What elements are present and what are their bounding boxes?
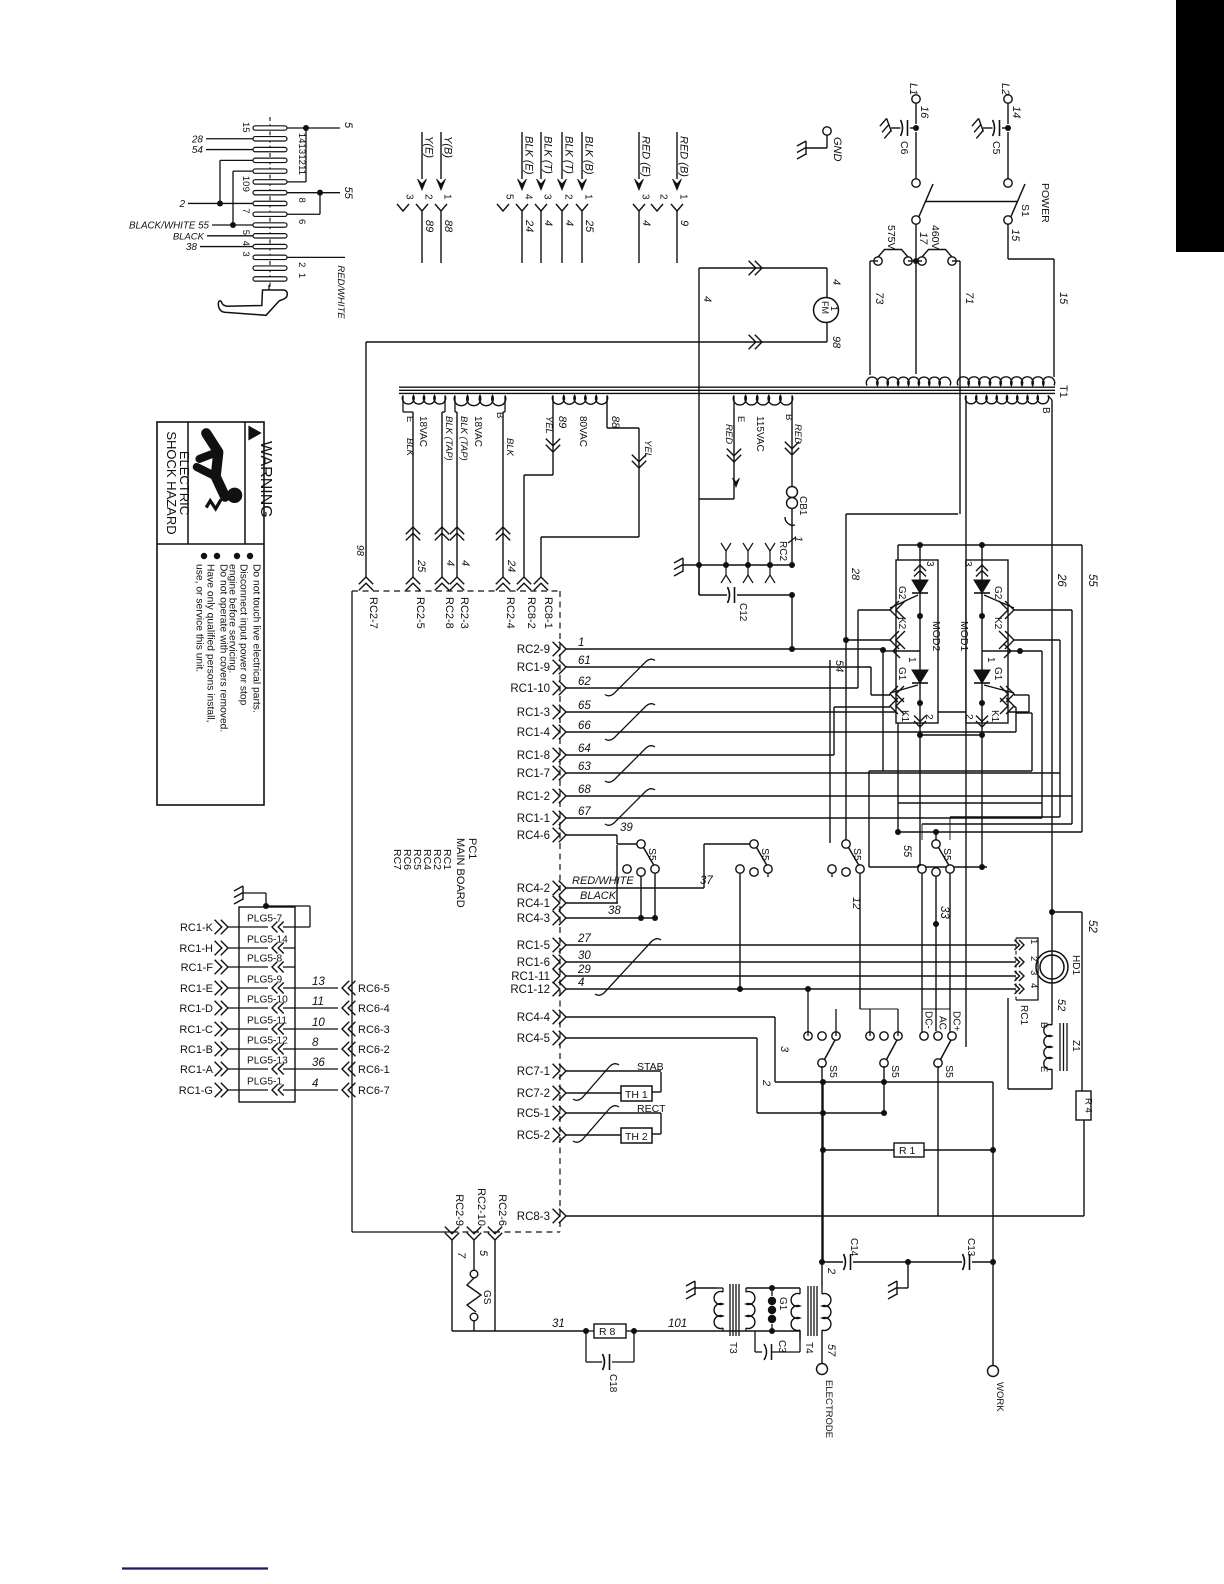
ground between C14/C13 (905, 1259, 911, 1265)
svg-text:89: 89 (556, 416, 568, 428)
twisted pair slash RC1-8/RC1-7 (605, 746, 655, 783)
svg-text:28: 28 (191, 134, 204, 145)
gun trigger symbol (268, 285, 270, 291)
svg-text:RC5-1: RC5-1 (517, 1108, 550, 1120)
svg-text:BLK: BLK (504, 438, 515, 457)
wire 5 from pin 15 jumper to pin 10 (287, 127, 340, 129)
svg-text:use, or service this unit.: use, or service this unit. (194, 564, 205, 672)
MOD1 SCR bottom (974, 670, 990, 683)
connector RC2-7 (359, 577, 373, 584)
svg-text:RED (E): RED (E) (640, 136, 652, 177)
svg-text:4: 4 (563, 220, 575, 226)
connector RC2-4 (496, 577, 510, 584)
svg-text:38: 38 (186, 242, 198, 253)
svg-text:80VAC: 80VAC (577, 416, 588, 447)
svg-text:7: 7 (455, 1252, 467, 1259)
wire 17 to T1 primary tap (915, 261, 917, 374)
svg-text:33: 33 (938, 906, 950, 919)
svg-text:K2: K2 (896, 617, 907, 630)
capacitor C12 (698, 565, 700, 595)
wire 88 YEL to RC8-1 (541, 536, 639, 538)
svg-text:K1: K1 (989, 710, 1000, 723)
svg-text:RC1-F: RC1-F (181, 962, 214, 974)
footer rule (122, 1567, 268, 1569)
svg-text:R 4: R 4 (1083, 1098, 1094, 1113)
power switch S1 (915, 132, 917, 179)
wire 54 to pin 13 (206, 149, 253, 151)
svg-text:3: 3 (640, 194, 651, 200)
svg-text:T4: T4 (803, 1342, 814, 1354)
ground at C6 (878, 118, 893, 138)
svg-text:G1: G1 (992, 667, 1003, 681)
svg-text:15: 15 (1009, 229, 1021, 242)
svg-text:RC5-2: RC5-2 (517, 1130, 550, 1142)
svg-text:B: B (1038, 1022, 1049, 1028)
selector switch S5 pole G (DC+/AC/DC-) (934, 1059, 942, 1067)
resistor R4 (1076, 1091, 1091, 1120)
svg-text:25: 25 (415, 559, 427, 573)
WORK terminal (988, 1366, 999, 1377)
svg-text:RC4-3: RC4-3 (517, 913, 550, 925)
svg-text:10: 10 (240, 176, 251, 187)
MOD top bus wire 55 (898, 544, 1082, 546)
svg-text:RC4-2: RC4-2 (517, 883, 550, 895)
RC4-5 wire 2 down (756, 1038, 758, 1113)
svg-text:64: 64 (578, 743, 591, 755)
MOD2 terminal 3 (top) (919, 545, 921, 580)
svg-text:28: 28 (849, 567, 861, 581)
svg-text:RC4-5: RC4-5 (517, 1033, 550, 1045)
RC1 pin 1 (1019, 940, 1024, 950)
svg-text:68: 68 (578, 784, 591, 796)
lower bank horizontal ties (860, 1008, 898, 1010)
ground at RC2 spare row (674, 558, 683, 576)
svg-text:RC8-3: RC8-3 (517, 1211, 550, 1223)
svg-text:1: 1 (792, 536, 804, 542)
RC1 pin 2 (1019, 957, 1024, 967)
svg-text:G2: G2 (896, 586, 907, 600)
MOD1 terminal K2 (1005, 631, 1014, 649)
svg-text:RC1-B: RC1-B (180, 1044, 213, 1056)
svg-text:RC1-7: RC1-7 (517, 768, 550, 780)
svg-text:11: 11 (312, 996, 324, 1008)
svg-text:1: 1 (296, 273, 307, 278)
PC1 board edge left wire (351, 591, 353, 1232)
RC1 pin 4 (1019, 984, 1024, 994)
svg-text:RC7-2: RC7-2 (517, 1088, 550, 1100)
svg-text:2: 2 (423, 194, 434, 200)
plug wire BLK (T) pin 2 (561, 132, 563, 179)
wire 71 (952, 260, 960, 262)
svg-text:RC1-10: RC1-10 (510, 683, 550, 695)
plug wire RED (E) pin 3 (638, 132, 640, 179)
115VAC lead B wire RED (791, 409, 793, 486)
svg-text:S5: S5 (941, 848, 953, 861)
MOD2 output drop (868, 771, 870, 867)
spark gap G1 (769, 1285, 775, 1291)
RC1-8 jog to MOD2 K1 (833, 707, 835, 755)
T1 secondary lead left (965, 410, 967, 1047)
svg-text:4: 4 (444, 560, 456, 566)
connector RC2-8 (435, 577, 449, 584)
line terminal L1 (912, 95, 920, 103)
svg-text:30: 30 (578, 950, 591, 962)
svg-text:55: 55 (342, 187, 354, 200)
RC6 dashed links (351, 988, 353, 1090)
svg-text:HD1: HD1 (1070, 955, 1081, 975)
svg-text:RC8-2: RC8-2 (525, 597, 537, 629)
connector RC8-2 (517, 577, 531, 584)
svg-text:AC: AC (937, 1016, 948, 1030)
svg-text:4: 4 (1028, 983, 1039, 988)
Z1 return wire (1051, 1069, 1053, 1089)
svg-text:R 8: R 8 (599, 1326, 616, 1338)
plug wire BLK (B) pin 1 (581, 132, 583, 179)
svg-text:460V: 460V (929, 225, 941, 250)
MOD1 internal node top (979, 613, 985, 619)
svg-text:4: 4 (578, 977, 584, 989)
selector switch S5 pole E (818, 1059, 826, 1067)
thermostat TH1 with STAB label (660, 1072, 662, 1092)
svg-text:10: 10 (312, 1017, 325, 1029)
T1 secondary lead right (to HD1/Z1) (1051, 400, 1053, 1022)
svg-text:RC1-H: RC1-H (179, 943, 213, 955)
electric shock pictogram (197, 433, 242, 509)
svg-text:3: 3 (778, 1046, 790, 1053)
svg-text:RC1-5: RC1-5 (517, 940, 550, 952)
connector RC8-1 (534, 577, 548, 584)
circuit breaker CB1 (787, 487, 798, 498)
MOD2 SCR top (912, 580, 928, 593)
svg-text:RC6-7: RC6-7 (358, 1085, 390, 1097)
bottom bus wire 31 (452, 1330, 586, 1332)
svg-text:RC2-3: RC2-3 (458, 597, 470, 629)
wire 55 right loop (1081, 545, 1083, 832)
svg-text:26: 26 (1055, 573, 1067, 587)
svg-text:B: B (494, 412, 505, 418)
svg-text:RED (B): RED (B) (678, 136, 690, 177)
T1 18VAC winding 1 (402, 396, 445, 405)
svg-text:RC2-8: RC2-8 (443, 597, 455, 629)
warning triangle icon (249, 427, 261, 440)
svg-text:63: 63 (578, 761, 591, 773)
svg-text:98: 98 (354, 545, 365, 557)
svg-text:RC2-10: RC2-10 (475, 1188, 487, 1226)
svg-text:BLACK: BLACK (173, 231, 205, 242)
svg-text:1: 1 (906, 657, 917, 663)
svg-text:RC1-3: RC1-3 (517, 707, 550, 719)
svg-text:PC1: PC1 (466, 838, 478, 859)
svg-text:37: 37 (700, 875, 713, 887)
svg-text:YEL: YEL (543, 416, 554, 434)
wire from RC2-6 (494, 1240, 496, 1331)
wire 55 vertical MOD top to S5 (897, 545, 899, 832)
MOD2 internal node bottom (917, 700, 923, 706)
svg-text:G1: G1 (777, 1297, 788, 1311)
svg-text:RC1-11: RC1-11 (511, 971, 550, 983)
PC1 board edge dashed bottom (352, 1231, 452, 1233)
svg-text:DC-: DC- (923, 1011, 934, 1029)
svg-text:65: 65 (578, 700, 591, 712)
wire BLACK to pin 5 (207, 235, 253, 237)
MOD1 terminal 2 (bottom) (976, 721, 988, 727)
RC4-6 wire 39 to S5 (616, 835, 618, 844)
RC4-2 wire 37 to S5 pole B (703, 844, 705, 888)
svg-text:RC4-6: RC4-6 (517, 830, 550, 842)
S5 pole C drops (831, 873, 833, 877)
mesh horizontal y803 (898, 802, 1042, 804)
svg-text:GND: GND (831, 137, 843, 162)
warning label box (157, 422, 264, 805)
svg-text:RED/WHITE: RED/WHITE (572, 875, 634, 887)
svg-text:RC1-8: RC1-8 (517, 750, 550, 762)
svg-text:L1: L1 (907, 83, 919, 95)
svg-text:8: 8 (312, 1037, 319, 1049)
ground at T3 (686, 1281, 695, 1299)
RC1-1 loop to MOD1 1 (1041, 651, 1043, 818)
svg-text:RED: RED (792, 424, 803, 444)
svg-text:BLK (T): BLK (T) (542, 136, 554, 174)
svg-text:18VAC: 18VAC (472, 416, 483, 447)
connector RC2-9 (bottom) (445, 1233, 459, 1240)
svg-text:73: 73 (873, 292, 885, 305)
resistor R8 (583, 1328, 589, 1334)
svg-text:2: 2 (658, 194, 669, 200)
wire 28 to pin 14 (206, 138, 253, 140)
svg-text:9: 9 (678, 220, 690, 226)
wire 101 (634, 1330, 723, 1332)
svg-text:9: 9 (240, 187, 251, 192)
capacitor C18 (585, 1331, 587, 1362)
svg-text:S5: S5 (943, 1065, 955, 1078)
plug wire Y(E) pin 2 (421, 132, 423, 179)
T1 80VAC winding (552, 396, 607, 405)
svg-text:RC1: RC1 (1018, 1005, 1029, 1025)
capacitor C6 (901, 120, 903, 136)
svg-text:YEL: YEL (642, 440, 653, 458)
svg-text:RC2-5: RC2-5 (414, 597, 426, 629)
wire 28 (T1 tap to MOD2) (846, 513, 958, 515)
svg-text:BLK: BLK (404, 438, 415, 457)
svg-text:55: 55 (901, 845, 913, 858)
svg-text:52: 52 (1086, 920, 1098, 933)
plug wire BLK (E) pin 4 (521, 132, 523, 179)
svg-text:RECT: RECT (637, 1103, 666, 1115)
svg-text:1: 1 (583, 194, 594, 200)
svg-text:K1: K1 (899, 710, 910, 723)
warning bullet 1 (247, 553, 253, 559)
twisted pair slash RC7-1/RC7-2 (573, 1064, 619, 1101)
T1 primary winding group 2 (957, 377, 1054, 386)
MOD1 terminal K1 (1006, 698, 1014, 714)
svg-text:5: 5 (504, 194, 515, 200)
PLG5 ground jumper (234, 886, 243, 904)
svg-text:C18: C18 (607, 1374, 618, 1393)
svg-text:Have only qualified persons in: Have only qualified persons install, (205, 564, 216, 723)
svg-text:BLK (TAP): BLK (TAP) (443, 416, 454, 461)
svg-text:C5: C5 (990, 141, 1002, 155)
svg-text:Z1: Z1 (1070, 1040, 1081, 1052)
MOD1 terminal 3 (top) (981, 545, 983, 580)
plug wire BLK (T) pin 3 (540, 132, 542, 179)
node 575/460 center tap (913, 258, 919, 264)
MOD2 terminal 1 riser (882, 651, 884, 771)
svg-text:E: E (735, 416, 746, 422)
svg-text:88: 88 (609, 416, 621, 429)
twisted pair slash RC1-2/RC1-1 (605, 789, 655, 826)
MOD1 terminal 1 (982, 650, 1008, 652)
svg-text:2: 2 (296, 262, 307, 267)
svg-text:Do not touch live electrical p: Do not touch live electrical parts. (251, 564, 262, 713)
svg-text:RED/WHITE: RED/WHITE (335, 265, 346, 319)
svg-text:5: 5 (477, 1250, 489, 1257)
svg-text:RC1-D: RC1-D (179, 1003, 213, 1015)
selector switch S5 pole B (750, 840, 758, 848)
warning bullet 2 (234, 553, 240, 559)
hall device HD1 (1036, 951, 1068, 983)
capacitor C13 (908, 1261, 962, 1263)
twisted pair slash RC1-5 group (595, 939, 661, 996)
svg-text:RC2-4: RC2-4 (504, 597, 516, 629)
wire 38 to pin 4 (200, 246, 253, 248)
T4 to electrode wire 57 (821, 1330, 823, 1363)
svg-text:13: 13 (312, 976, 325, 988)
svg-text:1: 1 (985, 657, 996, 663)
svg-text:RC2-7: RC2-7 (367, 597, 379, 629)
selector switch S5 pole D (935, 832, 937, 840)
svg-text:RC4-4: RC4-4 (517, 1012, 551, 1024)
ground stud GND (823, 127, 831, 135)
svg-text:1: 1 (1028, 939, 1039, 944)
fan motor FM1 (814, 298, 839, 323)
svg-text:5: 5 (342, 122, 354, 129)
svg-text:8: 8 (296, 197, 307, 202)
svg-text:4: 4 (312, 1078, 318, 1090)
plug wire RED (B) pin 1 (676, 132, 678, 179)
svg-text:575V: 575V (885, 225, 897, 250)
svg-text:GS: GS (481, 1290, 492, 1305)
svg-text:54: 54 (833, 660, 845, 672)
line terminal L2 (1004, 95, 1012, 103)
svg-text:67: 67 (578, 806, 591, 818)
svg-text:88: 88 (442, 220, 454, 233)
115VAC lead E wire RED (733, 409, 735, 499)
svg-text:62: 62 (578, 676, 591, 688)
MOD output bus upper (920, 734, 982, 736)
connector RC2-3 (450, 577, 464, 584)
RC1-4 jog to MOD1 K1 (1015, 707, 1017, 732)
MOD2 1 to RC2-9 wire 1 (880, 647, 886, 653)
twisted pair slash RC1-3/RC1-4 (605, 704, 655, 741)
RC1-7 loop to MOD1 K2 (1059, 640, 1061, 773)
svg-text:C3: C3 (776, 1340, 787, 1353)
page corner black bar (1176, 0, 1224, 252)
wire 1 CB1 to RC2-9 net (791, 595, 793, 649)
spare plug RC2 pins (725, 551, 727, 565)
connector RC1 (to HD1) box (1016, 938, 1038, 1000)
connector RC2-6 (bottom) (488, 1233, 502, 1240)
capacitor C5 (993, 120, 995, 136)
svg-text:RC2-9: RC2-9 (453, 1194, 465, 1226)
FM1 return wire 98 bottom (826, 322, 828, 342)
svg-text:R 1: R 1 (899, 1145, 916, 1157)
svg-text:RC6-3: RC6-3 (358, 1024, 390, 1036)
RC1-3 jog to MOD1 G1 (1028, 695, 1030, 712)
svg-text:BLK (B): BLK (B) (583, 136, 595, 175)
svg-text:3: 3 (542, 194, 553, 200)
T1 primary winding group 1 (866, 377, 950, 385)
thermostat TH2 with RECT label (660, 1113, 662, 1134)
gun connector PLG - dashed centerline (269, 117, 271, 300)
svg-text:3: 3 (404, 194, 415, 200)
svg-text:STAB: STAB (637, 1061, 664, 1073)
MOD2 terminal K1 (890, 698, 898, 714)
R4 lower lead (1083, 1120, 1085, 1216)
S5 pole D drops (921, 824, 923, 840)
svg-text:C14: C14 (848, 1238, 859, 1257)
svg-text:38: 38 (608, 905, 621, 917)
svg-text:E: E (404, 416, 415, 422)
svg-text:RC7-1: RC7-1 (517, 1066, 550, 1078)
svg-text:DC+: DC+ (951, 1011, 962, 1031)
MOD output bus lower (869, 866, 987, 868)
svg-text:1: 1 (442, 194, 453, 200)
svg-text:4: 4 (523, 194, 534, 200)
svg-text:BLK (E): BLK (E) (523, 136, 535, 175)
MOD2 SCR bottom (912, 670, 928, 683)
svg-text:WARNING: WARNING (257, 441, 274, 518)
plug wire Y(B) pin 1 (440, 132, 442, 179)
PC1 board edge dashed right (559, 591, 561, 1232)
wire 15 S1 to T1 primary (1007, 224, 1009, 259)
svg-text:39: 39 (620, 822, 633, 834)
MOD1 terminal G2 (1005, 601, 1014, 619)
svg-text:4: 4 (542, 220, 554, 226)
svg-text:RC8-1: RC8-1 (542, 597, 554, 629)
svg-text:RC4-1: RC4-1 (517, 898, 550, 910)
MOD2 terminal K2 (890, 631, 899, 649)
svg-text:RC1-6: RC1-6 (517, 957, 550, 969)
svg-text:15: 15 (1057, 292, 1069, 305)
selector switch S5 pole F (880, 1059, 888, 1067)
svg-text:BLK (T): BLK (T) (563, 136, 575, 174)
wire BLACK/WHITE 55 jumper pins 11 and 6 (212, 224, 253, 226)
svg-text:Disconnect input power or stop: Disconnect input power or stop (238, 564, 249, 706)
svg-text:RC1-4: RC1-4 (517, 727, 551, 739)
svg-text:7: 7 (240, 208, 251, 213)
voltage link 575V (915, 224, 917, 261)
RC4-4 wire 3 down (774, 1017, 776, 1082)
svg-text:B: B (1040, 407, 1051, 414)
lower bank contact risers (807, 989, 809, 1036)
voltage link 460V (918, 257, 926, 265)
transformer T1 core (399, 386, 1055, 388)
svg-text:6: 6 (296, 219, 307, 224)
svg-text:RC6-1: RC6-1 (358, 1064, 390, 1076)
svg-text:RC1-9: RC1-9 (517, 662, 550, 674)
svg-text:4: 4 (459, 560, 471, 566)
svg-text:36: 36 (312, 1057, 325, 1069)
svg-text:SHOCK HAZARD: SHOCK HAZARD (164, 431, 179, 534)
svg-text:2: 2 (760, 1079, 772, 1086)
lower S5 pole drops (821, 1066, 823, 1262)
warning bullet 3 (214, 553, 220, 559)
svg-text:MAIN BOARD: MAIN BOARD (454, 838, 466, 908)
warning bullet 4 (201, 553, 207, 559)
svg-text:MOD1: MOD1 (958, 621, 970, 651)
wire 73 left primary (870, 260, 878, 262)
svg-text:4: 4 (240, 241, 251, 246)
